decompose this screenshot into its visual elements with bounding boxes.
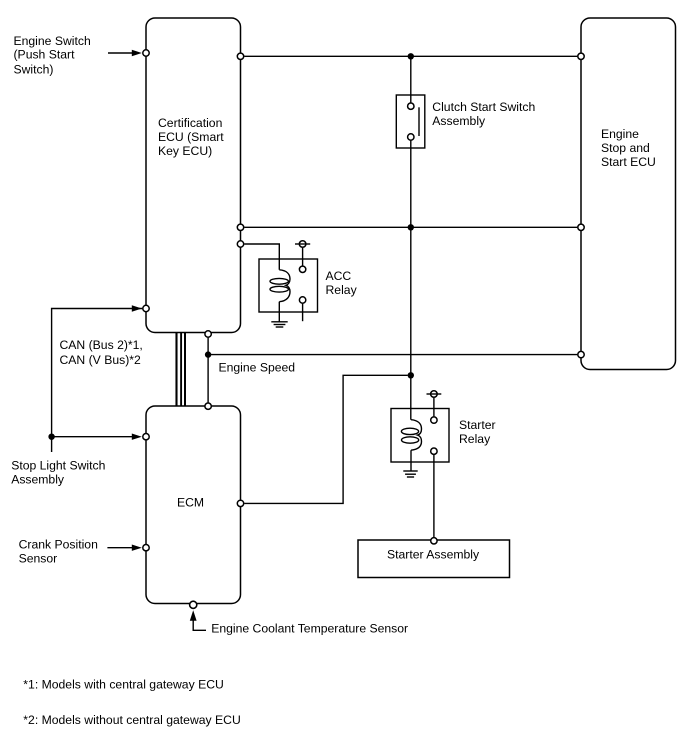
label Crank Position Sensor <box>19 537 98 565</box>
label Stop Light Switch Assembly <box>11 458 105 486</box>
svg-text:Certification: Certification <box>158 116 222 130</box>
arrow engine switch into Certification ECU <box>108 50 142 56</box>
svg-text:Relay: Relay <box>459 432 491 446</box>
terminal circle cert ECU right middle <box>237 224 243 230</box>
block U3 ECM <box>146 406 241 604</box>
terminal circle ECM right <box>237 500 243 506</box>
wire stop light switch to ECM <box>52 436 134 438</box>
terminal circle CAN on cert ECU left <box>143 305 149 311</box>
terminal circle cert ECU right ACC <box>237 241 243 247</box>
relay K1 ACC Relay <box>259 259 358 312</box>
wire engine speed y=354.6 <box>208 354 577 356</box>
terminal circle ECM top <box>205 403 211 409</box>
svg-text:Stop and: Stop and <box>601 141 650 155</box>
label CAN (Bus 2)*1, CAN (V Bus)*2 <box>60 338 143 367</box>
wire starter relay to starter assembly <box>433 455 435 537</box>
svg-text:Crank Position: Crank Position <box>19 537 98 551</box>
switch S1 Clutch Start Switch Assembly <box>396 95 535 148</box>
svg-text:ECU (Smart: ECU (Smart <box>158 130 224 144</box>
arrow CAN into Certification ECU <box>132 305 142 311</box>
block Starter Assembly <box>358 540 510 578</box>
terminal circle ESS ECU top <box>578 53 584 59</box>
svg-text:Assembly: Assembly <box>11 472 65 486</box>
ground ACC relay <box>271 322 287 327</box>
svg-text:Starter: Starter <box>459 418 496 432</box>
node junction ECM wire joins vertical line <box>408 372 414 378</box>
coil of ACC relay <box>270 270 290 322</box>
arrow engine coolant temperature sensor into ECM <box>190 610 206 630</box>
terminal circle cert ECU bottom <box>205 331 211 337</box>
wire cert ECU to ACC relay coil <box>244 244 279 270</box>
terminal circle starter assembly top <box>431 538 437 544</box>
svg-text:Sensor: Sensor <box>19 551 58 565</box>
wire ECM to starter relay junction <box>244 375 407 503</box>
svg-text:CAN (Bus 2)*1,: CAN (Bus 2)*1, <box>60 338 143 352</box>
terminal B+ of starter relay (circle with bar) <box>427 391 442 417</box>
wire CAN/stop-light vertical line <box>52 309 143 453</box>
svg-text:CAN (V Bus)*2: CAN (V Bus)*2 <box>60 353 141 367</box>
svg-text:Starter Assembly: Starter Assembly <box>387 548 480 562</box>
node junction middle wire x=411 <box>408 224 414 230</box>
wire middle bus y=227 <box>244 226 577 228</box>
block U2 Engine Stop and Start ECU <box>581 18 676 370</box>
svg-text:Engine Speed: Engine Speed <box>219 361 296 375</box>
wire cert ECU bottom to engine speed junction <box>207 338 209 403</box>
terminal circle engine switch on cert ECU left <box>143 50 149 56</box>
terminal circle cert ECU right top <box>237 53 243 59</box>
svg-text:*1: Models with central gatewa: *1: Models with central gateway ECU <box>23 678 224 692</box>
svg-text:Stop Light Switch: Stop Light Switch <box>11 458 105 472</box>
wire vertical clutch/starter line upper segment <box>410 56 412 102</box>
coil of starter relay <box>401 420 421 471</box>
node junction stop light switch <box>48 434 54 440</box>
ground starter relay <box>403 471 417 477</box>
contacts of starter relay <box>431 417 437 455</box>
svg-text:ACC: ACC <box>326 269 352 283</box>
node junction engine speed x=208 <box>205 351 211 357</box>
arrow stop light switch into ECM <box>132 434 142 440</box>
terminal circle ECM bottom <box>190 601 197 608</box>
svg-text:Switch): Switch) <box>14 62 54 76</box>
svg-text:Start ECU: Start ECU <box>601 155 656 169</box>
node junction top wire x=411 <box>408 53 414 59</box>
label Engine Switch (Push Start Switch) <box>14 34 91 76</box>
arrow crank position sensor into ECM <box>107 545 141 551</box>
terminal circle ESS ECU middle <box>578 224 584 230</box>
wire vertical clutch line lower segment <box>410 141 412 420</box>
bus CAN lines between Certification ECU and ECM <box>177 333 186 407</box>
relay K2 Starter Relay <box>391 409 496 463</box>
terminal circle ECM left crank <box>143 545 149 551</box>
svg-text:Relay: Relay <box>326 283 358 297</box>
svg-text:Clutch Start Switch: Clutch Start Switch <box>432 100 535 114</box>
svg-text:Engine: Engine <box>601 127 639 141</box>
wire top bus y=56 <box>244 55 577 57</box>
svg-text:Assembly: Assembly <box>432 114 486 128</box>
svg-text:(Push Start: (Push Start <box>14 48 76 62</box>
contacts of ACC relay <box>299 266 305 321</box>
svg-text:ECM: ECM <box>177 495 204 509</box>
svg-text:Engine Switch: Engine Switch <box>14 34 91 48</box>
svg-text:*2: Models without central gat: *2: Models without central gateway ECU <box>23 713 240 727</box>
terminal circle ESS ECU bottom <box>578 351 584 357</box>
svg-text:Engine Coolant Temperature Sen: Engine Coolant Temperature Sensor <box>211 621 408 635</box>
terminal circle ECM left stop light <box>143 434 149 440</box>
svg-text:Key ECU): Key ECU) <box>158 144 212 158</box>
block U1 Certification ECU (Smart Key ECU) <box>146 18 241 333</box>
terminal B+ of ACC relay (circle with bar) <box>295 241 310 266</box>
